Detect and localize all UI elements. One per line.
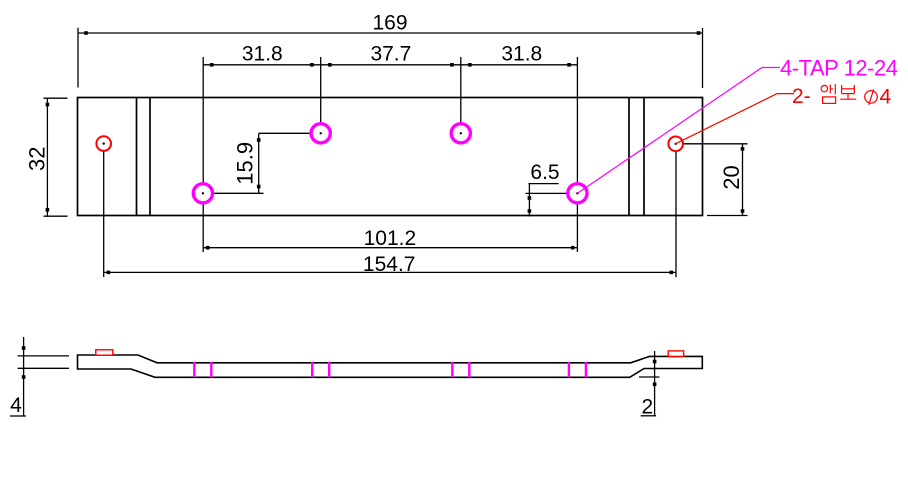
svg-text:20: 20 [719, 165, 744, 189]
svg-text:4-TAP 12-24: 4-TAP 12-24 [780, 55, 898, 80]
svg-text:2-: 2- [792, 85, 811, 108]
svg-text:31.8: 31.8 [501, 43, 542, 66]
svg-text:154.7: 154.7 [363, 253, 416, 276]
svg-text:32: 32 [25, 147, 50, 171]
svg-text:37.7: 37.7 [370, 43, 411, 66]
svg-text:2: 2 [641, 396, 653, 419]
svg-text:101.2: 101.2 [364, 227, 417, 250]
svg-text:6.5: 6.5 [530, 161, 559, 184]
svg-text:169: 169 [372, 12, 407, 35]
svg-text:15.9: 15.9 [233, 142, 258, 185]
svg-text:4: 4 [10, 394, 22, 417]
svg-text:31.8: 31.8 [242, 43, 283, 66]
svg-text:4: 4 [880, 86, 892, 109]
